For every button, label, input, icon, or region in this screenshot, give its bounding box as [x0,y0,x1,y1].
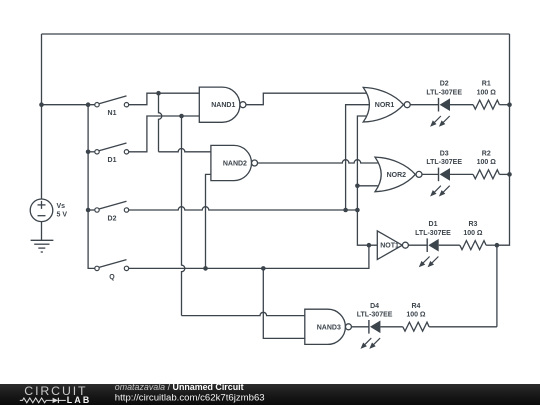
svg-text:D3: D3 [440,150,449,157]
svg-text:100 Ω: 100 Ω [463,230,483,237]
node Q/NAND3B junction [261,266,266,271]
LED D4 [368,320,370,334]
svg-text:omatazavala / Unnamed Circuit: omatazavala / Unnamed Circuit [115,382,244,392]
switch D1 [95,150,99,154]
svg-text:R1: R1 [482,81,491,88]
LED D1 [426,238,428,252]
node R2/bus [507,172,512,177]
node R1/bus [507,102,512,107]
svg-text:R4: R4 [411,303,420,310]
svg-text:http://circuitlab.com/c62k7t6j: http://circuitlab.com/c62k7t6jzmb63 [115,393,265,404]
node Q/NAND2B junction [203,266,208,271]
svg-text:5 V: 5 V [57,212,68,219]
wire LED D1 to R3 [439,244,460,246]
wire NAND2 output to NOR2 input A [258,160,378,163]
wire N1 to NAND2 input A [159,93,162,152]
node Vs/N1 junction [39,102,44,107]
switch Q [95,266,99,270]
svg-text:NAND2: NAND2 [223,161,247,168]
nor gate NOR1 [363,87,403,122]
resistor R1 [473,100,499,109]
nand gate NAND1 [199,87,240,122]
nand gate NAND2 [211,145,252,180]
wire NAND2 input B from Q [206,174,211,268]
svg-text:NOR2: NOR2 [387,172,407,179]
LED D2 [438,98,440,112]
wire LED D2 to R1 [450,104,473,106]
switch N1 [95,103,99,107]
resistor R3 [460,241,486,250]
wire N1 row from supply [42,104,95,106]
svg-text:LTL-307EE: LTL-307EE [357,312,393,319]
wire line B NOR1 low input [357,116,377,245]
footer bar [0,384,540,405]
svg-text:D1: D1 [429,221,438,228]
svg-text:NAND1: NAND1 [211,102,235,109]
node NOR2B junction [355,184,360,189]
wire Vs to ground [41,222,43,241]
svg-text:100 Ω: 100 Ω [477,90,497,97]
switch D2 [95,208,99,212]
wire Q to NOT1 input [129,245,369,268]
svg-text:LAB: LAB [67,395,92,405]
resistor R4 [403,322,429,331]
node NOT1 input junction [367,243,372,248]
logo resistor-diode squiggle [20,398,53,403]
wire NAND3 output [352,326,369,328]
svg-text:LTL-307EE: LTL-307EE [426,90,462,97]
wire R2 to bus [499,173,509,175]
svg-text:D4: D4 [370,303,379,310]
wire N1 to NAND1 input A [129,93,200,105]
resistor R2 [473,170,499,179]
svg-text:LTL-307EE: LTL-307EE [426,159,462,166]
ground [31,239,54,241]
wire line A NOR1 mid input [346,105,370,210]
wire D2 to NOR inputs [129,207,358,210]
svg-text:LTL-307EE: LTL-307EE [415,230,451,237]
svg-text:NOT1: NOT1 [380,243,399,250]
wire LED D4 to R4 [380,326,402,328]
nand gate NAND3 [305,309,346,344]
wire D1 to NAND3 input A [182,116,185,316]
wire LED D3 to R2 [450,173,473,175]
wire NOR2 input B [357,185,377,187]
wire NOR1 output [410,104,438,106]
svg-text:100 Ω: 100 Ω [477,159,497,166]
wire NOT1 output [409,244,428,246]
svg-text:D2: D2 [440,81,449,88]
svg-text:100 Ω: 100 Ω [406,312,426,319]
node D2/lineB junction [355,208,360,213]
wire top rail [42,33,510,35]
wire R4 to R3 node [429,326,497,328]
nor gate NOR2 [375,157,415,192]
wire left switch bus [88,105,95,269]
inverter NOT1 [377,231,402,260]
wire NAND1 output to NOR1 input A [246,93,366,105]
wire R1 to bus [499,104,509,106]
svg-text:NOR1: NOR1 [375,102,395,109]
svg-text:R2: R2 [482,150,491,157]
svg-text:R3: R3 [468,221,477,228]
svg-text:Q: Q [109,274,115,281]
wire R3 node down to R4 row [496,245,498,327]
svg-text:Vs: Vs [57,203,66,210]
svg-text:N1: N1 [108,110,117,117]
node D2/lineA junction [343,208,348,213]
wire Q to NAND3 input B [263,268,305,338]
node switch bus D2 [86,208,91,213]
node N1 branch [156,91,161,96]
node switch bus D1 [86,150,91,155]
wire D1 row from bus [88,151,95,153]
wire Vs+ to top rail [41,34,43,199]
wire NOR2 output [422,173,439,175]
svg-text:NAND3: NAND3 [317,324,341,331]
node switch bus N1 [86,102,91,107]
wire D1 to NAND1 input B [129,116,200,152]
node R3 junction [495,243,500,248]
svg-text:D2: D2 [108,215,117,222]
wire R3 to node [486,244,497,246]
voltage source Vs [30,199,53,222]
node D1 branch [179,114,184,119]
LED D3 [438,168,440,182]
wire right bus [497,34,510,245]
wire D2 row from bus [88,209,95,211]
svg-text:D1: D1 [108,157,117,164]
